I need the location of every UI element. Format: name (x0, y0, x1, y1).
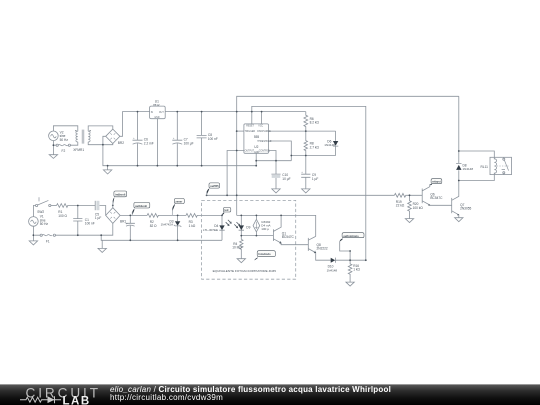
svg-text:led: led (225, 208, 229, 212)
svg-text:F2: F2 (62, 149, 66, 153)
svg-text:THRESHOLD: THRESHOLD (257, 141, 272, 143)
svg-text:IN: IN (151, 112, 154, 114)
svg-text:1 kΩ: 1 kΩ (189, 224, 196, 228)
svg-text:indbooli: indbooli (115, 192, 126, 196)
svg-text:GND: GND (254, 152, 259, 154)
svg-text:VCC: VCC (258, 126, 263, 128)
svg-text:82 Ω: 82 Ω (150, 224, 157, 228)
svg-text:7812: 7812 (153, 103, 160, 107)
svg-text:TRIGGER: TRIGGER (245, 131, 256, 133)
svg-text:RL11: RL11 (481, 165, 489, 169)
svg-text:GND: GND (154, 117, 159, 119)
svg-text:2.2 mF: 2.2 mF (144, 141, 154, 145)
svg-text:DISCHARGE: DISCHARGE (257, 130, 271, 133)
svg-text:BR2: BR2 (118, 141, 124, 145)
svg-text:555: 555 (254, 135, 260, 139)
svg-text:100 nF: 100 nF (208, 137, 218, 141)
svg-text:XFMR1: XFMR1 (73, 148, 84, 152)
svg-text:+: + (133, 138, 135, 140)
svg-text:1N4148: 1N4148 (324, 143, 335, 147)
svg-text:1 µF: 1 µF (312, 177, 318, 181)
svg-text:OUT: OUT (159, 112, 164, 114)
svg-text:100 kΩ: 100 kΩ (413, 206, 424, 210)
svg-text:BC547C: BC547C (430, 196, 443, 200)
svg-text:+: + (173, 138, 175, 140)
svg-text:1 µF: 1 µF (95, 216, 101, 220)
svg-text:10 µF: 10 µF (282, 177, 290, 181)
svg-text:22 kΩ: 22 kΩ (396, 204, 405, 208)
svg-text:1N4742A: 1N4742A (161, 222, 174, 226)
svg-text:100 µ: 100 µ (261, 227, 269, 231)
svg-text:1 kΩ: 1 kΩ (353, 268, 360, 272)
svg-text:outbbooli: outbbooli (135, 204, 147, 208)
svg-text:2.7 kΩ: 2.7 kΩ (310, 145, 320, 149)
svg-text:RESET: RESET (246, 126, 254, 128)
svg-text:50 Hz: 50 Hz (40, 222, 49, 226)
svg-text:50 Hz: 50 Hz (60, 138, 69, 142)
svg-text:100 nF: 100 nF (85, 222, 95, 226)
svg-text:U2: U2 (254, 145, 258, 149)
svg-text:1N4148: 1N4148 (463, 167, 474, 171)
svg-text:outfototrans: outfototrans (343, 234, 359, 238)
svg-text:100 Ω: 100 Ω (58, 214, 67, 218)
svg-text:BC547C: BC547C (282, 235, 295, 239)
svg-text:F1: F1 (46, 239, 50, 243)
svg-text:2N3055: 2N3055 (460, 207, 471, 211)
svg-text:CONTROL: CONTROL (259, 150, 271, 152)
svg-text:relaysi: relaysi (432, 180, 441, 184)
svg-text:fotodiodo: fotodiodo (258, 252, 271, 256)
svg-text:zener: zener (175, 201, 182, 204)
svg-text:1N4148: 1N4148 (327, 268, 338, 272)
svg-text:SW2: SW2 (37, 210, 44, 214)
svg-text:10 MΩ: 10 MΩ (232, 246, 242, 250)
svg-text:out555: out555 (210, 184, 219, 188)
svg-text:LAB: LAB (63, 395, 91, 405)
svg-text:D9: D9 (246, 225, 250, 229)
svg-text:EQUIVALENTE FOTOACCOPPIATORE 4: EQUIVALENTE FOTOACCOPPIATORE 4N35 (213, 269, 277, 273)
svg-text:2N2222: 2N2222 (317, 247, 328, 251)
svg-text:100 µF: 100 µF (184, 141, 194, 145)
svg-text:8.2 kΩ: 8.2 kΩ (310, 121, 320, 125)
svg-text:LTL-307EE: LTL-307EE (203, 228, 218, 232)
